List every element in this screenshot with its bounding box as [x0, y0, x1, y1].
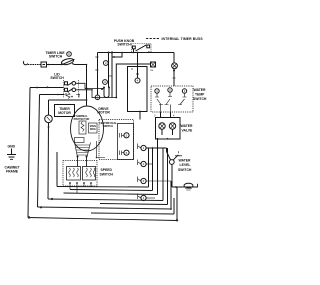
- wire bundle vertical 6: [170, 181, 172, 209]
- svg-text:VALVE: VALVE: [182, 129, 194, 133]
- svg-text:2: 2: [143, 162, 145, 166]
- diaphragm dome: [184, 183, 193, 187]
- timer motor: [45, 115, 53, 123]
- svg-text:SWITCH: SWITCH: [193, 97, 207, 101]
- wire valve down: [157, 139, 159, 148]
- terminal id circle: [67, 52, 72, 57]
- wire bundle vertical 2: [152, 148, 154, 191]
- thermal protector: [74, 115, 90, 121]
- pilot circled terminal: [172, 63, 178, 69]
- bottom routing wire 8: [28, 218, 177, 221]
- svg-text:GND: GND: [8, 145, 16, 149]
- inline connector: [41, 62, 47, 67]
- wire connector to timer line switch: [47, 64, 62, 66]
- wire stub terminal 2: [146, 163, 152, 165]
- wires water temp to valve: [161, 112, 171, 118]
- label INTERNAL TIMER BUSS with dashed leader: [146, 38, 160, 40]
- lid switch contacts: [64, 80, 80, 99]
- svg-text:1M: 1M: [150, 70, 153, 72]
- junction bottom right: [176, 219, 178, 221]
- svg-text:SWITCH: SWITCH: [103, 125, 113, 128]
- push knob switch: [132, 44, 152, 53]
- junction wire 6: [40, 206, 42, 208]
- wire bundle vertical 7: [173, 198, 175, 214]
- label SPEED SWITCH: [100, 168, 114, 177]
- power cord plug: [23, 61, 27, 65]
- junction bottom left: [28, 216, 30, 218]
- centrifugal switch dashed box: [99, 120, 134, 160]
- timer line switch cam: [61, 57, 75, 65]
- svg-text:3: 3: [104, 80, 106, 84]
- hairpin loop: [104, 87, 109, 98]
- bus vertical B: [111, 53, 113, 98]
- wires lid switch right: [76, 83, 104, 88]
- svg-text:2: 2: [105, 61, 107, 65]
- wire bundle vertical 1: [148, 148, 150, 187]
- bottom routing wire 7: [91, 213, 174, 214]
- terminal circle on bus: [103, 61, 108, 66]
- svg-text:LEVEL: LEVEL: [180, 163, 191, 167]
- svg-text:MOTOR: MOTOR: [97, 111, 110, 115]
- terminal column: [138, 144, 147, 201]
- bottom routing wire 5: [100, 204, 168, 205]
- horizontal node wire: [146, 147, 167, 149]
- wire bundle vertical 8: [176, 187, 178, 221]
- svg-text:1: 1: [143, 146, 145, 150]
- svg-text:PROTECTOR: PROTECTOR: [74, 118, 90, 121]
- label WATER TEMP SWITCH: [193, 88, 207, 101]
- main top wire: [98, 52, 175, 54]
- svg-text:SWITCH: SWITCH: [178, 168, 192, 172]
- svg-text:TEMP: TEMP: [195, 93, 205, 97]
- svg-text:SPEED: SPEED: [101, 168, 113, 172]
- centrifugal inner box: [118, 124, 134, 160]
- ground symbol: [5, 145, 21, 174]
- timer motor boxed label: [55, 105, 75, 117]
- left feed wires: [30, 87, 64, 89]
- label PUSH KNOB SWITCH: [114, 39, 135, 47]
- wire node to inner bus: [112, 53, 122, 58]
- motor right-side wire: [97, 141, 106, 158]
- bottom routing wire 1: [57, 186, 149, 189]
- label WATER LEVEL SWITCH: [178, 159, 192, 173]
- left bus wire 2: [38, 95, 40, 208]
- svg-text:3: 3: [143, 179, 145, 183]
- junction wire 4: [51, 198, 53, 200]
- bottom routing wire 3: [64, 193, 158, 195]
- wire down to drive motor: [86, 65, 88, 106]
- terminal circle 2 on bus: [103, 80, 108, 85]
- svg-text:4: 4: [143, 196, 145, 200]
- bottom routing wire 4: [48, 199, 163, 201]
- timer block rectangle: [128, 67, 148, 112]
- wire bundle vertical 5: [167, 148, 169, 205]
- svg-text:WATER: WATER: [181, 124, 194, 128]
- svg-text:5: 5: [126, 134, 128, 138]
- left bus wire 1: [28, 88, 30, 218]
- bottom routing wire 6: [38, 207, 172, 209]
- label WATER VALVE: [181, 124, 194, 133]
- bottom routing wire 2: [70, 190, 153, 191]
- svg-text:6: 6: [126, 151, 128, 155]
- label TIMER LINE SWITCH: [45, 51, 65, 59]
- label DRIVE MOTOR: [97, 107, 110, 115]
- water level switch: [167, 148, 183, 187]
- svg-text:WATER: WATER: [194, 88, 207, 92]
- svg-text:WDG: WDG: [90, 128, 96, 131]
- timer motor feed wire lower / left bus wire 3: [47, 123, 50, 199]
- terminal circle: [95, 95, 100, 100]
- wire stub terminal 4: [146, 197, 155, 199]
- wire switch to node: [75, 64, 87, 66]
- junction wire 6 right: [170, 208, 172, 210]
- wire bundle vertical 4: [162, 148, 164, 201]
- left bus wire 4: [56, 152, 58, 187]
- L wire around timer block: [116, 64, 150, 98]
- svg-text:INTERNAL TIMER BUSS: INTERNAL TIMER BUSS: [162, 37, 204, 41]
- svg-text:FRAME: FRAME: [6, 170, 19, 174]
- svg-text:SWITCH: SWITCH: [117, 43, 131, 47]
- svg-text:SWITCH: SWITCH: [100, 173, 114, 177]
- bus vertical A: [108, 53, 110, 88]
- wire to diaphragm: [172, 186, 198, 188]
- svg-text:SWITCH: SWITCH: [49, 55, 63, 59]
- wire bundle vertical 3: [157, 139, 159, 195]
- water valve box: [156, 118, 181, 140]
- drive motor ellipse: [71, 106, 104, 151]
- speed switch dashed box: [63, 161, 97, 187]
- svg-text:4: 4: [137, 79, 139, 83]
- vertical wire left inner: [97, 53, 99, 96]
- small x-box right of timer block: [151, 62, 156, 67]
- right drop from top wire: [173, 53, 175, 63]
- wire stub terminal 3: [146, 180, 171, 182]
- svg-text:MOTOR: MOTOR: [58, 111, 71, 115]
- water temp switch dashed box: [151, 86, 193, 112]
- svg-text:WATER: WATER: [179, 159, 192, 163]
- wire plug to connector: [28, 64, 41, 66]
- motor windings funnel: [75, 143, 91, 157]
- lid switch label: [50, 73, 64, 81]
- timer motor feed wire upper: [48, 100, 50, 115]
- svg-text:SWITCH: SWITCH: [50, 76, 64, 80]
- wire y100: [49, 99, 87, 101]
